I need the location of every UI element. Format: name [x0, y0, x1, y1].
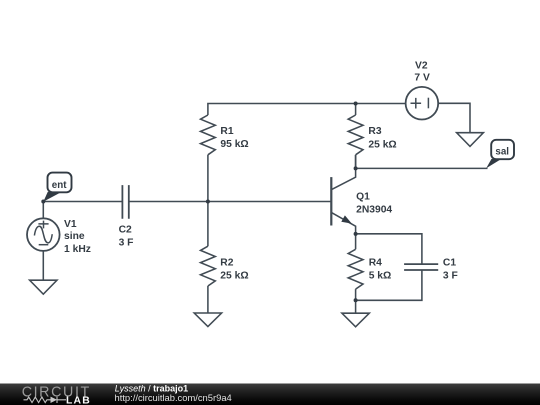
svg-text:R1: R1	[220, 126, 233, 137]
svg-text:V1: V1	[64, 219, 77, 230]
svg-text:7 V: 7 V	[414, 73, 430, 84]
svg-text:Q1: Q1	[356, 191, 370, 202]
svg-text:C2: C2	[119, 225, 132, 236]
svg-text:LAB: LAB	[66, 396, 91, 405]
svg-text:ent: ent	[52, 180, 67, 191]
svg-text:5 kΩ: 5 kΩ	[369, 271, 392, 282]
svg-text:sal: sal	[495, 146, 509, 157]
svg-text:http://circuitlab.com/cn5r9a4: http://circuitlab.com/cn5r9a4	[115, 392, 232, 403]
svg-text:sine: sine	[64, 231, 85, 242]
svg-text:V2: V2	[415, 60, 428, 71]
svg-text:3 F: 3 F	[443, 271, 458, 282]
svg-text:1 kHz: 1 kHz	[64, 244, 91, 255]
svg-text:R3: R3	[368, 126, 381, 137]
svg-text:95 kΩ: 95 kΩ	[220, 139, 248, 150]
svg-text:25 kΩ: 25 kΩ	[368, 139, 396, 150]
svg-text:2N3904: 2N3904	[356, 204, 392, 215]
svg-text:C1: C1	[443, 258, 456, 269]
svg-text:R4: R4	[369, 258, 382, 269]
svg-text:25 kΩ: 25 kΩ	[220, 270, 248, 281]
svg-text:R2: R2	[220, 257, 233, 268]
svg-text:3 F: 3 F	[119, 238, 134, 249]
